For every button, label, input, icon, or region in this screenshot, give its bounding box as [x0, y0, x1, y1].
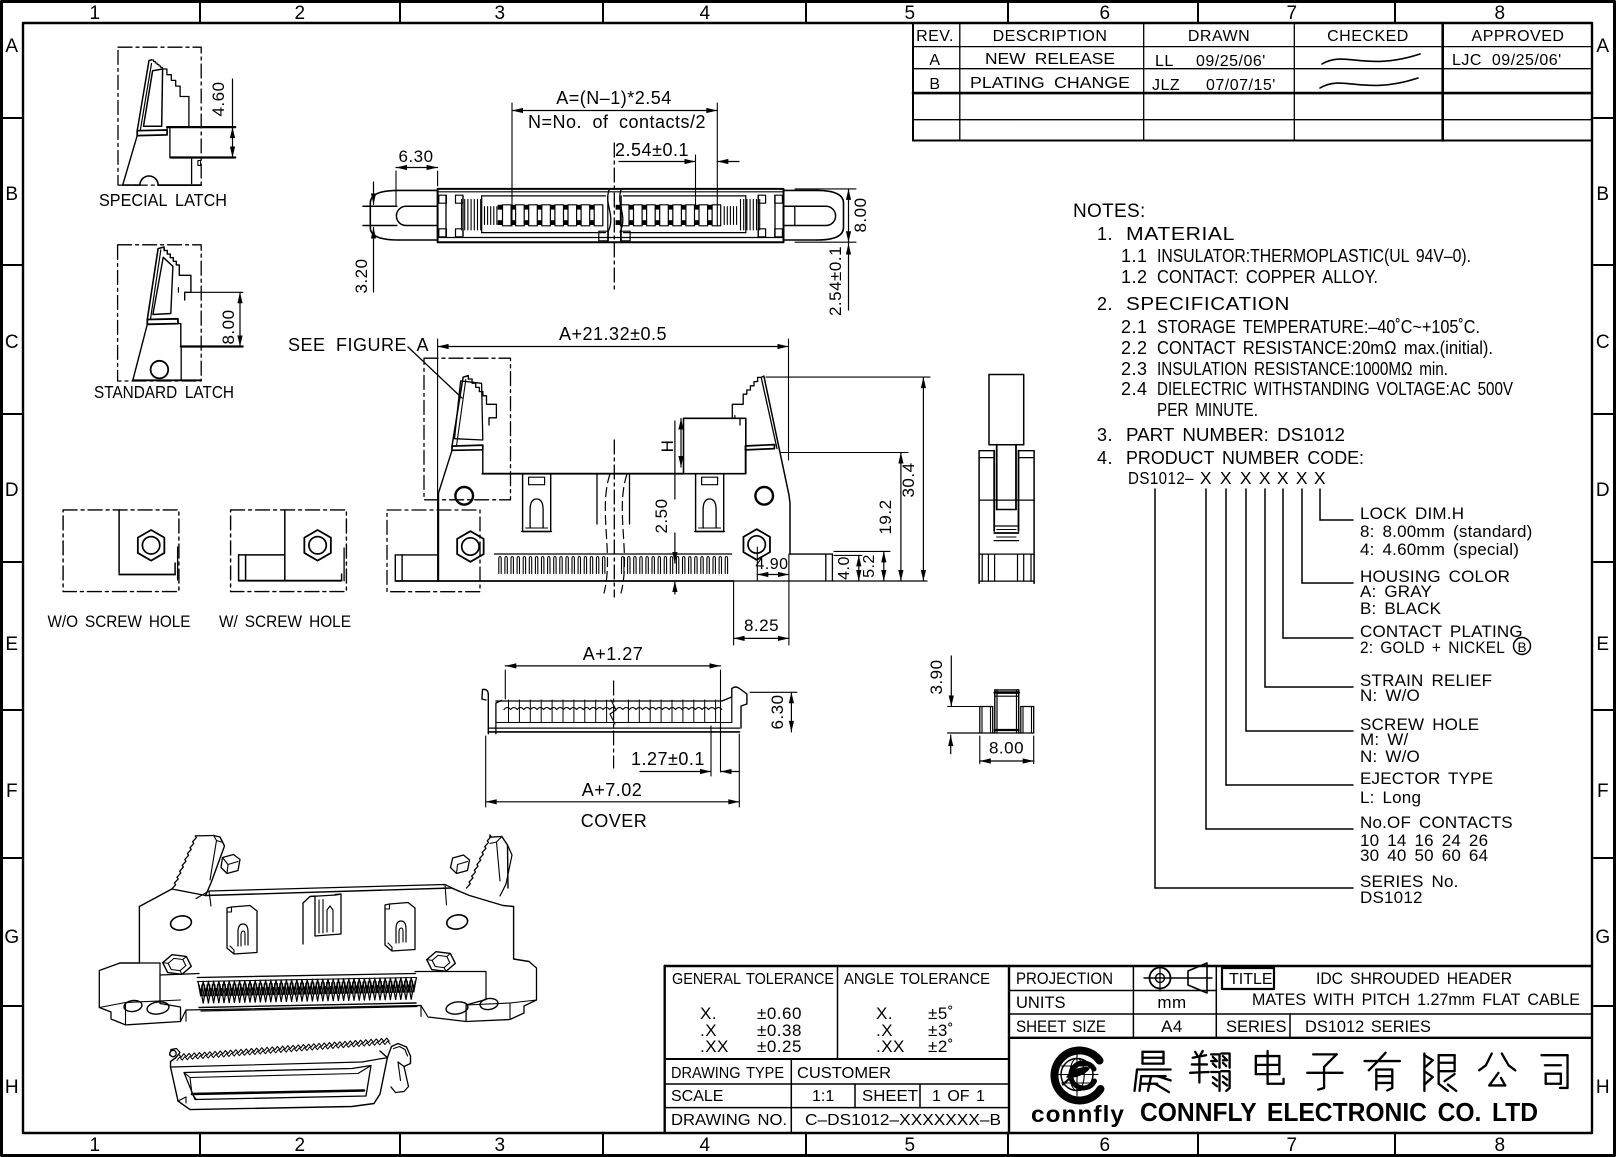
w/o screw hole detail	[48, 510, 191, 631]
svg-text:2.: 2.	[1097, 294, 1113, 314]
dimension 6.30 cover	[750, 691, 797, 693]
svg-text:B: B	[1517, 640, 1526, 655]
product number code tree	[1128, 468, 1533, 907]
special latch detail view	[99, 47, 235, 210]
svg-text:6.30: 6.30	[768, 694, 787, 729]
svg-text:8.25: 8.25	[744, 616, 779, 635]
svg-text:2.54±0.1: 2.54±0.1	[826, 246, 845, 316]
cover view	[482, 644, 797, 831]
svg-text:CONTACT: COPPER ALLOY.: CONTACT: COPPER ALLOY.	[1157, 267, 1378, 287]
iso cover panel	[184, 1066, 371, 1100]
iso left latch arm	[172, 836, 214, 890]
svg-text:H: H	[5, 1077, 19, 1098]
svg-text:.XX: .XX	[876, 1037, 905, 1056]
svg-text:SCALE: SCALE	[671, 1088, 723, 1105]
dimension 4.60	[232, 79, 234, 127]
iso hex nuts	[163, 955, 192, 975]
svg-text:A+7.02: A+7.02	[582, 780, 643, 800]
iso bottom edge	[181, 1006, 467, 1022]
svg-text:SHEET SIZE: SHEET SIZE	[1016, 1018, 1106, 1036]
svg-text:UNITS: UNITS	[1016, 994, 1066, 1012]
svg-text:A4: A4	[1161, 1017, 1183, 1036]
svg-text:C: C	[5, 332, 19, 353]
front screw holes	[455, 487, 473, 505]
top view body	[438, 189, 784, 242]
chinese company name	[1135, 1051, 1568, 1092]
svg-text:G: G	[4, 927, 19, 948]
revision table	[913, 23, 1592, 141]
cover right hook	[722, 687, 747, 728]
iso right latch tab	[451, 855, 470, 874]
iso towers	[227, 906, 257, 955]
svg-text:2.1: 2.1	[1121, 317, 1148, 337]
svg-text:D: D	[5, 480, 19, 501]
svg-text:8.00: 8.00	[219, 309, 238, 344]
svg-text:3: 3	[494, 3, 505, 24]
iso shroud inner edge	[196, 885, 460, 899]
svg-text:DIELECTRIC WITHSTANDING VOLTAG: DIELECTRIC WITHSTANDING VOLTAGE:AC 500V	[1157, 379, 1513, 399]
svg-text:2.2: 2.2	[1121, 338, 1148, 358]
dimension H	[680, 419, 682, 468]
svg-text:MATES WITH PITCH 1.27mm FLAT C: MATES WITH PITCH 1.27mm FLAT CABLE	[1252, 990, 1580, 1009]
svg-text:DS1012–: DS1012–	[1128, 468, 1194, 488]
iso left foot	[99, 963, 180, 1025]
svg-text:L: Long: L: Long	[1360, 788, 1421, 807]
svg-text:DRAWN: DRAWN	[1188, 28, 1250, 45]
svg-text:NOTES:: NOTES:	[1073, 201, 1146, 222]
circled B	[1514, 638, 1531, 655]
svg-text:3: 3	[494, 1135, 505, 1156]
svg-text:DS1012 SERIES: DS1012 SERIES	[1305, 1018, 1431, 1036]
svg-text:2: 2	[294, 3, 305, 24]
top view right end details	[757, 196, 759, 236]
w/ screw hole detail	[219, 510, 351, 631]
keying towers	[523, 474, 551, 532]
side view bottom hatch	[979, 553, 1034, 555]
svg-text:GENERAL TOLERANCE: GENERAL TOLERANCE	[672, 971, 834, 988]
svg-text:F: F	[1597, 781, 1609, 802]
svg-text:STORAGE TEMPERATURE:–40˚C~+105: STORAGE TEMPERATURE:–40˚C~+105˚C.	[1157, 317, 1480, 337]
svg-text:A+1.27: A+1.27	[583, 644, 644, 664]
dimension 8.00	[239, 292, 241, 346]
svg-text:4: 4	[699, 3, 710, 24]
iso center key	[303, 896, 315, 944]
cover center break	[613, 681, 615, 768]
svg-text:6: 6	[1099, 1135, 1110, 1156]
cover body	[496, 700, 722, 702]
svg-text:4.90: 4.90	[755, 556, 788, 573]
svg-text:X: X	[1220, 468, 1232, 488]
svg-text:X: X	[1240, 468, 1252, 488]
svg-text:DRAWING TYPE: DRAWING TYPE	[671, 1065, 784, 1082]
top view contacts	[503, 205, 512, 226]
svg-text:8: 8	[1494, 3, 1505, 24]
cover left hook	[482, 689, 488, 733]
side view contact stack	[994, 525, 1018, 527]
svg-text:CONTACT RESISTANCE:20mΩ max.(i: CONTACT RESISTANCE:20mΩ max.(initial).	[1157, 338, 1493, 358]
svg-text:4: 4.60mm (special): 4: 4.60mm (special)	[1360, 540, 1519, 559]
side view	[979, 375, 1034, 584]
top view left latch	[398, 189, 438, 191]
front view body	[439, 450, 453, 581]
top view center break	[613, 143, 615, 290]
svg-text:No.OF CONTACTS: No.OF CONTACTS	[1360, 813, 1513, 832]
notes text	[1073, 201, 1513, 468]
svg-text:A: A	[5, 36, 18, 57]
svg-text:1.1: 1.1	[1121, 246, 1148, 266]
dimension 8.00 cover	[979, 736, 981, 764]
connfly logo	[1054, 1050, 1100, 1100]
svg-text:PROJECTION: PROJECTION	[1016, 970, 1113, 988]
iso right foot	[466, 962, 536, 1022]
dimension 3.90	[948, 706, 980, 708]
svg-text:2.50: 2.50	[652, 498, 671, 533]
svg-text:5.2: 5.2	[861, 554, 878, 578]
svg-text:A: A	[1596, 36, 1609, 57]
svg-text:1: 1	[89, 3, 100, 24]
svg-text:2.3: 2.3	[1121, 359, 1148, 379]
svg-text:IDC SHROUDED HEADER: IDC SHROUDED HEADER	[1316, 969, 1512, 988]
projection symbol	[1144, 963, 1212, 993]
svg-text:A+21.32±0.5: A+21.32±0.5	[559, 324, 667, 344]
svg-text:SHEET: SHEET	[862, 1088, 918, 1105]
svg-text:3.: 3.	[1097, 425, 1113, 445]
dimension 3.20	[373, 182, 375, 205]
svg-text:30.4: 30.4	[899, 462, 918, 497]
svg-text:CUSTOMER: CUSTOMER	[797, 1065, 891, 1082]
svg-text:TITLE: TITLE	[1229, 971, 1273, 988]
svg-text:2.4: 2.4	[1121, 379, 1148, 399]
svg-text:PER MINUTE.: PER MINUTE.	[1157, 400, 1258, 420]
svg-text:30 40 50 60 64: 30 40 50 60 64	[1360, 846, 1488, 865]
svg-text:CONNFLY ELECTRONIC CO. LTD: CONNFLY ELECTRONIC CO. LTD	[1140, 1097, 1538, 1127]
svg-text:B: B	[1596, 184, 1609, 205]
iso body outline	[139, 888, 513, 907]
top view break edges	[607, 196, 609, 241]
svg-text:REV.: REV.	[916, 28, 954, 45]
svg-text:6.30: 6.30	[398, 147, 433, 166]
isometric connector view	[99, 835, 536, 1025]
svg-text:2: 2	[294, 1135, 305, 1156]
top view	[352, 88, 870, 316]
svg-text:PRODUCT NUMBER CODE:: PRODUCT NUMBER CODE:	[1126, 448, 1364, 468]
svg-text:7: 7	[1286, 3, 1297, 24]
svg-text:X: X	[1259, 468, 1271, 488]
svg-text:connfly: connfly	[1031, 1101, 1125, 1127]
svg-text:INSULATOR:THERMOPLASTIC(UL 94V: INSULATOR:THERMOPLASTIC(UL 94V–0).	[1157, 246, 1471, 266]
svg-text:COVER: COVER	[581, 811, 648, 831]
svg-text:B: B	[929, 76, 940, 93]
svg-text:G: G	[1595, 927, 1610, 948]
svg-text:.XX: .XX	[700, 1037, 729, 1056]
dimension 8.25	[733, 581, 735, 645]
svg-text:CHECKED: CHECKED	[1327, 28, 1409, 45]
svg-text:mm: mm	[1157, 993, 1186, 1012]
svg-text:W/ SCREW HOLE: W/ SCREW HOLE	[219, 612, 351, 631]
iso cover right hook	[387, 1044, 410, 1067]
dimension 19.2	[900, 453, 902, 582]
svg-text:H: H	[1596, 1077, 1610, 1098]
svg-text:8: 8	[1494, 1135, 1505, 1156]
signature row A	[1322, 54, 1420, 64]
top view right latch	[784, 189, 818, 191]
svg-text:SERIES: SERIES	[1226, 1018, 1287, 1036]
svg-text:1.27±0.1: 1.27±0.1	[631, 749, 705, 769]
svg-text:STANDARD LATCH: STANDARD LATCH	[94, 382, 234, 402]
svg-text:LJC 09/25/06': LJC 09/25/06'	[1452, 52, 1562, 69]
standard latch detail view	[94, 245, 243, 402]
latch hole	[151, 361, 169, 379]
svg-text:1 OF 1: 1 OF 1	[932, 1088, 985, 1105]
svg-text:07/07/15': 07/07/15'	[1206, 77, 1276, 94]
svg-text:19.2: 19.2	[876, 499, 895, 534]
top view left end details	[445, 196, 447, 236]
svg-text:W/O SCREW HOLE: W/O SCREW HOLE	[48, 612, 191, 631]
iso pins band	[197, 974, 415, 978]
svg-text:DRAWING NO.: DRAWING NO.	[671, 1112, 787, 1129]
svg-text:D: D	[1596, 480, 1610, 501]
svg-text:6: 6	[1099, 3, 1110, 24]
side view body	[979, 450, 994, 452]
front view left latch	[452, 376, 469, 447]
svg-text:4: 4	[699, 1135, 710, 1156]
front hex nuts	[457, 531, 484, 562]
dimension 2.50	[674, 533, 676, 563]
svg-text:N=No. of contacts/2: N=No. of contacts/2	[528, 112, 706, 132]
iso screw holes	[169, 914, 192, 931]
center break towers	[596, 474, 598, 524]
cap on top (figure H)	[684, 418, 746, 473]
isometric cover view	[170, 1038, 411, 1110]
front view right latch	[764, 376, 790, 554]
svg-text:7: 7	[1286, 1135, 1297, 1156]
svg-text:4.: 4.	[1097, 448, 1113, 468]
cover side tabs	[980, 706, 993, 708]
svg-text:X: X	[1296, 468, 1308, 488]
svg-text:LL: LL	[1155, 53, 1174, 70]
svg-text:8.00: 8.00	[989, 739, 1024, 758]
svg-text:1.2: 1.2	[1121, 267, 1148, 287]
svg-text:X: X	[1314, 468, 1326, 488]
front view pins	[494, 553, 731, 555]
svg-text:4.0: 4.0	[836, 556, 853, 580]
svg-text:A=(N–1)*2.54: A=(N–1)*2.54	[556, 88, 672, 108]
svg-text:A: A	[929, 52, 940, 69]
svg-text:INSULATION RESISTANCE:1000MΩ m: INSULATION RESISTANCE:1000MΩ min.	[1157, 359, 1448, 379]
svg-text:1:1: 1:1	[812, 1088, 834, 1105]
front view	[288, 324, 930, 645]
title block	[665, 963, 1592, 1133]
svg-text:SPECIAL LATCH: SPECIAL LATCH	[99, 190, 227, 210]
iso cover left end	[170, 1049, 181, 1058]
svg-text:F: F	[6, 781, 18, 802]
cover side view	[927, 656, 1034, 764]
svg-text:X: X	[1200, 468, 1212, 488]
front lower-left box	[387, 510, 480, 592]
svg-text:C: C	[1596, 332, 1610, 353]
svg-text:1: 1	[89, 1135, 100, 1156]
side view latch blade	[989, 375, 1024, 445]
dimension 30.4	[922, 377, 924, 581]
signature row B	[1320, 78, 1418, 88]
svg-text:NEW RELEASE: NEW RELEASE	[985, 51, 1115, 68]
svg-text:EJECTOR TYPE: EJECTOR TYPE	[1360, 769, 1493, 788]
svg-text:B: B	[5, 184, 18, 205]
front view lower right plate	[790, 553, 832, 555]
svg-text:PLATING CHANGE: PLATING CHANGE	[970, 75, 1130, 92]
right side dimensions	[766, 376, 930, 378]
svg-text:4.60: 4.60	[209, 81, 228, 116]
svg-text:X: X	[1277, 468, 1289, 488]
svg-text:E: E	[5, 634, 18, 655]
svg-text:±2˚: ±2˚	[928, 1037, 954, 1056]
svg-text:B: BLACK: B: BLACK	[1360, 599, 1442, 618]
iso left latch tab	[221, 855, 240, 874]
svg-text:PART NUMBER: DS1012: PART NUMBER: DS1012	[1126, 425, 1345, 445]
svg-text:3.90: 3.90	[927, 659, 946, 694]
svg-text:SEE FIGURE A: SEE FIGURE A	[288, 335, 429, 355]
svg-text:SPECIFICATION: SPECIFICATION	[1126, 294, 1290, 314]
svg-text:±0.25: ±0.25	[757, 1037, 802, 1056]
dimension 8.00 top view	[795, 188, 856, 190]
dimension 2.54 right	[848, 242, 850, 310]
cover side body	[995, 689, 1019, 691]
svg-text:09/25/06': 09/25/06'	[1196, 53, 1266, 70]
svg-text:5: 5	[904, 3, 915, 24]
svg-text:MATERIAL: MATERIAL	[1126, 224, 1235, 244]
iso right latch arm	[467, 835, 502, 888]
svg-text:N: W/O: N: W/O	[1360, 686, 1420, 705]
svg-text:5: 5	[904, 1135, 915, 1156]
svg-text:H: H	[658, 440, 677, 453]
svg-text:N: W/O: N: W/O	[1360, 747, 1420, 766]
TITLE box	[1222, 968, 1274, 989]
svg-text:JLZ: JLZ	[1152, 77, 1180, 94]
svg-text:DS1012: DS1012	[1360, 888, 1423, 907]
svg-text:2: GOLD + NICKEL: 2: GOLD + NICKEL	[1360, 638, 1505, 657]
svg-text:DESCRIPTION: DESCRIPTION	[993, 28, 1108, 45]
svg-text:8: 8.00mm (standard): 8: 8.00mm (standard)	[1360, 522, 1533, 541]
figure A detail box	[424, 358, 511, 500]
svg-text:8.00: 8.00	[851, 197, 870, 232]
svg-text:1.: 1.	[1097, 224, 1113, 244]
svg-text:3.20: 3.20	[352, 258, 371, 293]
svg-text:C–DS1012–XXXXXXX–B: C–DS1012–XXXXXXX–B	[805, 1112, 1001, 1129]
svg-text:LOCK DIM.H: LOCK DIM.H	[1360, 504, 1464, 523]
dimension 4.0	[858, 555, 860, 581]
svg-text:2.54±0.1: 2.54±0.1	[615, 140, 689, 160]
svg-text:ANGLE TOLERANCE: ANGLE TOLERANCE	[844, 971, 990, 988]
dimension 5.2	[883, 551, 885, 581]
svg-text:E: E	[1596, 634, 1609, 655]
svg-text:APPROVED: APPROVED	[1472, 28, 1565, 45]
